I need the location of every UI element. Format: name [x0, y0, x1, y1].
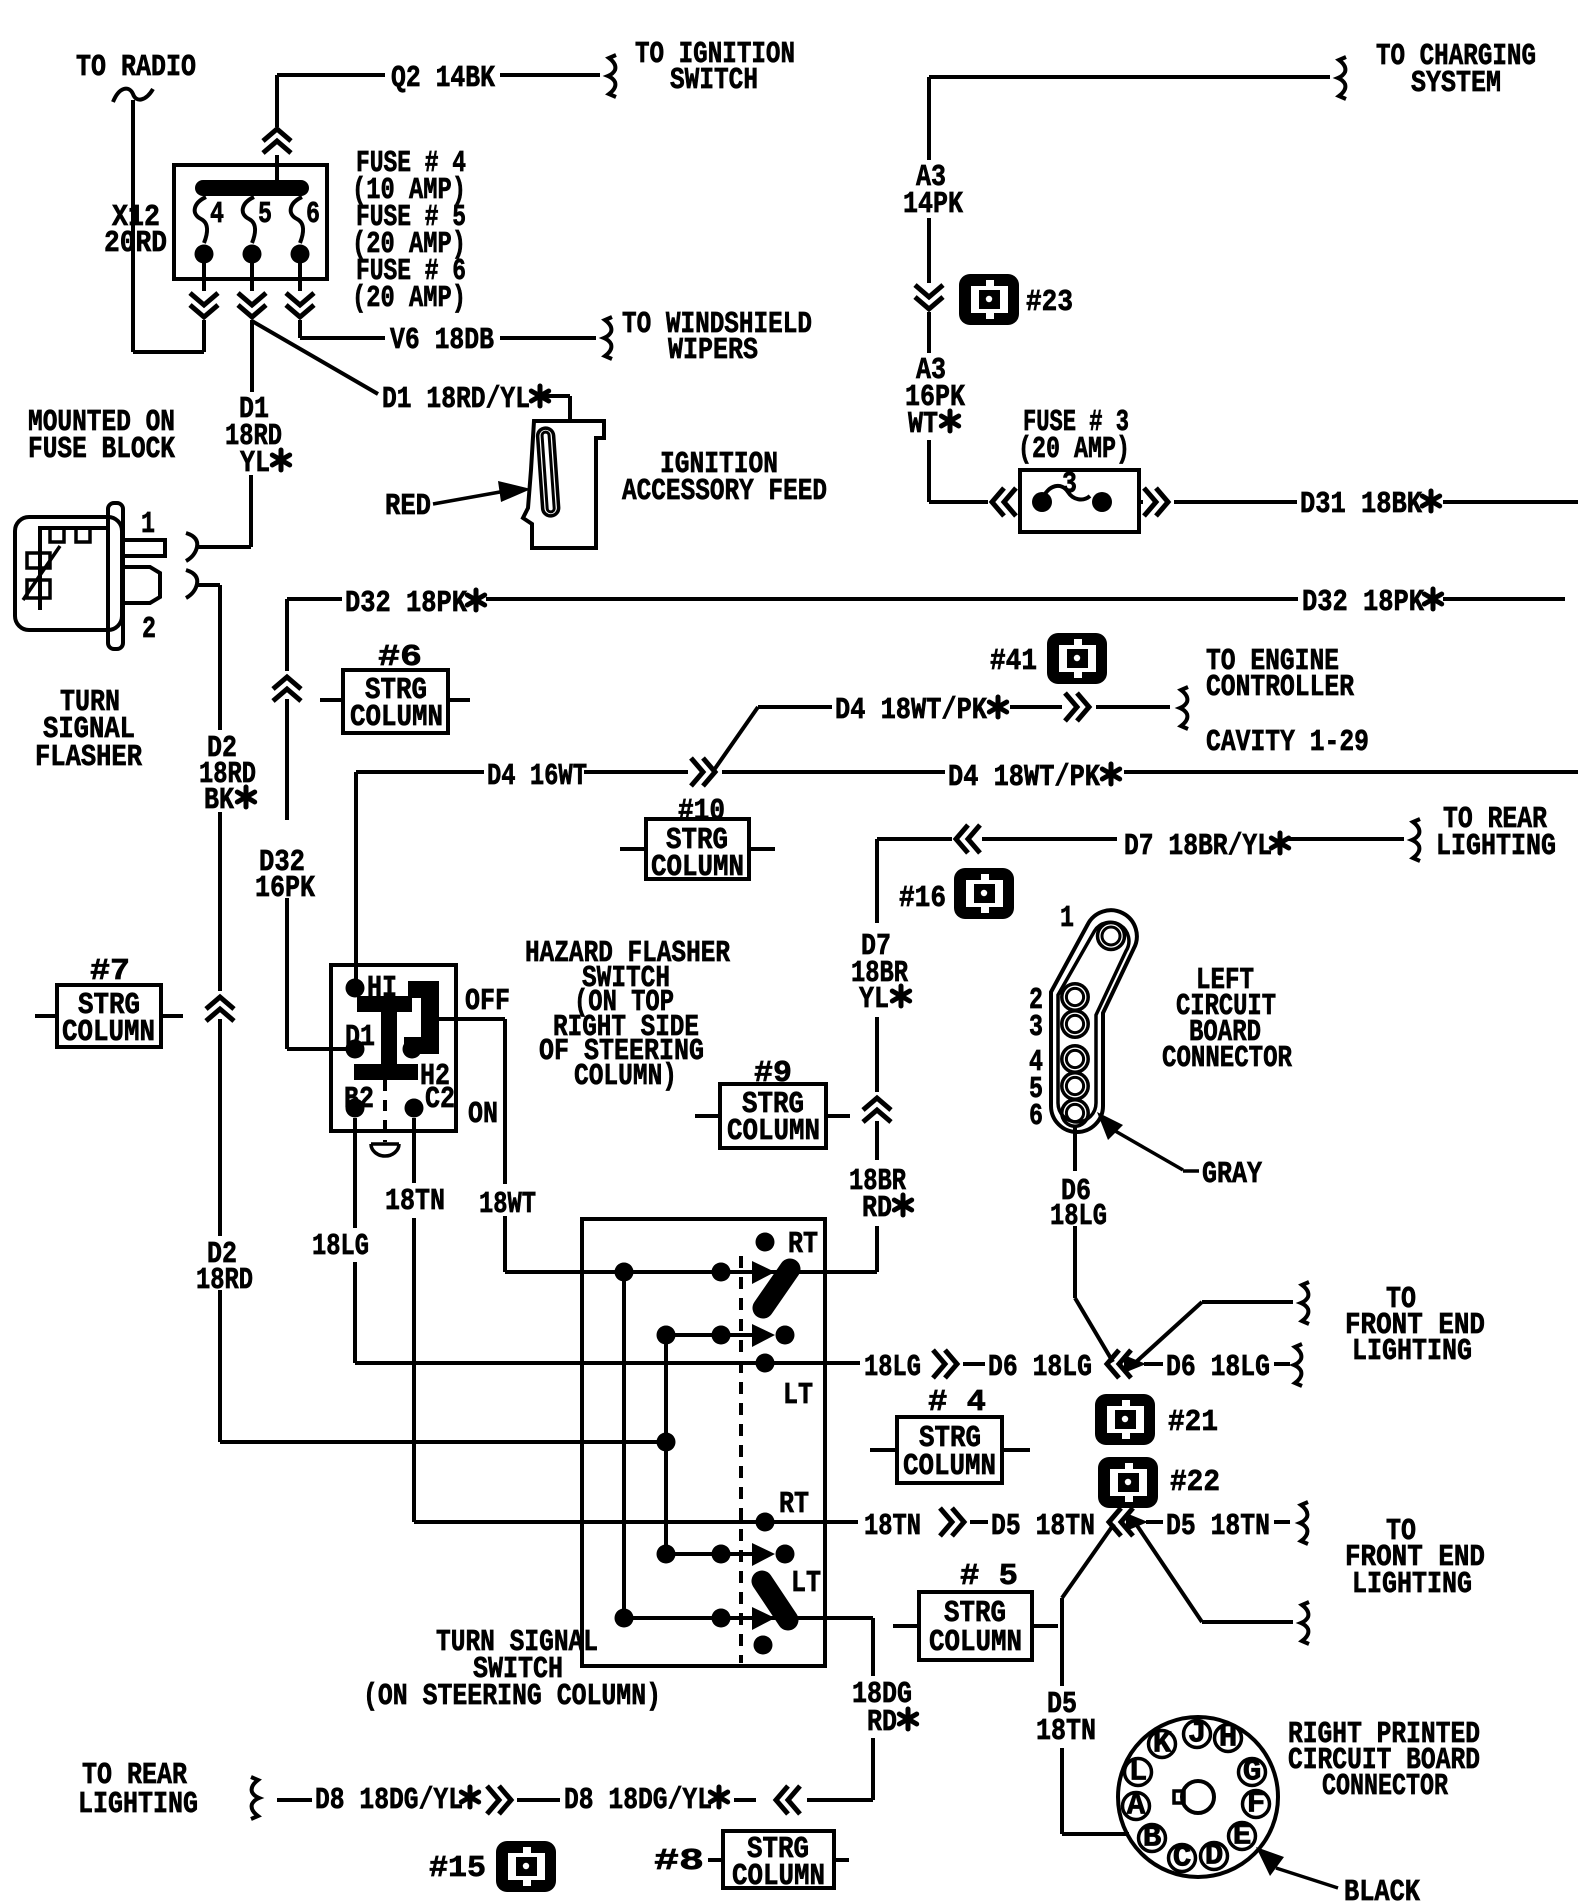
wire D4 18WT/PK* branch to engine controller	[714, 693, 1170, 770]
hazard flasher switch box	[331, 965, 456, 1131]
switch row D2 input	[220, 1433, 676, 1452]
svg-text:# 5: # 5	[960, 1559, 1018, 1594]
label HI	[367, 971, 397, 1006]
svg-text:18LG: 18LG	[864, 1350, 921, 1385]
wire A3 14PK to charging system	[915, 77, 1330, 502]
steering column grommet #4	[870, 1385, 1030, 1484]
fuse 6 element	[291, 197, 310, 264]
connector half at flasher pin 1	[186, 533, 197, 561]
wire 18DG RD* from LT lower row	[807, 1618, 873, 1800]
svg-text:D32 18PK: D32 18PK	[345, 586, 467, 621]
switch row 6 contacts	[657, 1543, 795, 1566]
ground symbol	[371, 1144, 399, 1156]
svg-text:#22: #22	[1170, 1465, 1220, 1500]
fuse block box (fuses 4-6)	[174, 165, 327, 279]
label D32 16PK	[255, 845, 315, 906]
connector bracket front lighting 4	[1301, 1602, 1309, 1644]
connector bracket to windshield wipers	[604, 317, 612, 359]
label A3 14PK	[903, 160, 963, 222]
connector cavity K	[1149, 1727, 1176, 1762]
svg-text:D6 18LG: D6 18LG	[988, 1350, 1092, 1385]
connector cavity A	[1123, 1789, 1150, 1824]
svg-text:18TN: 18TN	[385, 1184, 445, 1219]
svg-text:V6 18DB: V6 18DB	[390, 323, 494, 358]
fuse 3 pin number	[1062, 467, 1077, 502]
splice #23	[959, 274, 1019, 325]
label D4 18WT/PK* lower	[948, 760, 1120, 795]
label D2 18RD	[196, 1237, 253, 1298]
hazard switch ground dashes	[383, 1080, 387, 1142]
wire 18WT from OFF contact	[439, 1019, 582, 1272]
label D6 18LG mid	[988, 1350, 1092, 1385]
label RIGHT PRINTED CIRCUIT BOARD CONNECTOR	[1288, 1717, 1480, 1804]
label D4 18WT/PK* upper	[835, 693, 1007, 728]
svg-text:2: 2	[142, 612, 156, 647]
label #15	[429, 1851, 486, 1886]
svg-text:6: 6	[1029, 1099, 1043, 1134]
connector bracket to rear lighting bottom	[251, 1777, 259, 1819]
svg-text:TO RADIO: TO RADIO	[76, 50, 196, 85]
turn signal flasher can	[15, 503, 165, 649]
svg-text:COLUMN: COLUMN	[732, 1859, 825, 1894]
svg-text:LIGHTING: LIGHTING	[1352, 1334, 1472, 1369]
svg-text:COLUMN: COLUMN	[651, 850, 744, 885]
svg-text:#41: #41	[990, 644, 1037, 679]
label V6 18DB	[390, 323, 494, 358]
label 18LG left	[312, 1229, 369, 1264]
flasher pin 2 label	[142, 612, 156, 647]
label 18WT	[479, 1187, 536, 1222]
label 18TN left	[385, 1184, 445, 1219]
svg-text:D5 18TN: D5 18TN	[1166, 1509, 1270, 1544]
switch row RT lower	[582, 1513, 858, 1532]
label RED with arrow	[385, 481, 531, 524]
wire Q2 14BK to ignition switch	[263, 75, 600, 180]
label TURN SIGNAL SWITCH	[363, 1625, 661, 1714]
svg-text:D4 16WT: D4 16WT	[487, 759, 587, 794]
label D5 18TN stack	[1036, 1687, 1096, 1749]
svg-text:#23: #23	[1026, 285, 1073, 320]
connector cavity L	[1125, 1755, 1152, 1790]
label D6 18LG right	[1166, 1350, 1270, 1385]
label D1 18RD YL*	[225, 392, 290, 481]
connector pin 1	[1098, 923, 1125, 950]
label 18LG at box exit	[864, 1350, 921, 1385]
svg-text:D5 18TN: D5 18TN	[991, 1509, 1095, 1544]
label #41	[990, 644, 1037, 679]
svg-text:D32 18PK: D32 18PK	[1302, 585, 1424, 620]
svg-text:D6 18LG: D6 18LG	[1166, 1350, 1270, 1385]
wire D31 18BK* stub	[1443, 500, 1578, 504]
wire D8 18DG/YL row	[277, 1786, 800, 1814]
svg-text:18TN: 18TN	[1036, 1714, 1096, 1749]
hazard switch terminal HI	[346, 979, 365, 998]
connector halves at fuse 3	[929, 488, 1297, 516]
label OFF	[465, 984, 510, 1019]
fuse block bus bar	[195, 180, 309, 196]
fuse 4 pin number	[210, 197, 224, 232]
svg-text:C: C	[1173, 1841, 1192, 1876]
wire fuse 6 output V6	[286, 254, 596, 338]
svg-text:3: 3	[1029, 1010, 1043, 1045]
connector cavity J	[1184, 1717, 1211, 1752]
label BLACK with arrow	[1256, 1847, 1420, 1902]
fuse 6 pin number	[306, 197, 320, 232]
svg-text:CONNECTOR: CONNECTOR	[1322, 1769, 1448, 1804]
steering column grommet #5	[893, 1559, 1058, 1660]
switch RT upper terminal	[756, 1233, 775, 1252]
hazard switch contact bars	[354, 981, 439, 1080]
fuse 5 pin number	[258, 197, 272, 232]
connector cavity B	[1139, 1821, 1166, 1856]
svg-text:D: D	[1205, 1839, 1224, 1874]
switch bottom terminal	[754, 1636, 773, 1655]
svg-text:18LG: 18LG	[312, 1229, 369, 1264]
label #21	[1168, 1405, 1218, 1440]
svg-text:18WT: 18WT	[479, 1187, 536, 1222]
svg-text:CAVITY 1-29: CAVITY 1-29	[1206, 725, 1369, 760]
label 18BR RD* stack	[849, 1164, 912, 1226]
wire 18TN from C2	[414, 1118, 582, 1522]
label RT upper	[788, 1227, 818, 1262]
switch dashed divider	[739, 1256, 743, 1663]
svg-text:BK: BK	[204, 783, 234, 818]
fuse 5 element	[243, 197, 262, 264]
label LT upper	[783, 1378, 813, 1413]
svg-text:G: G	[1243, 1755, 1262, 1790]
label H2	[420, 1059, 450, 1094]
svg-text:18LG: 18LG	[1050, 1199, 1107, 1234]
switch row LT lower	[615, 1607, 869, 1630]
svg-text:LT: LT	[791, 1566, 821, 1601]
svg-text:(20 AMP): (20 AMP)	[352, 281, 466, 316]
svg-text:C2: C2	[425, 1082, 455, 1117]
connector half at flasher pin 2	[186, 570, 197, 598]
connector center key	[1174, 1781, 1214, 1813]
svg-text:OFF: OFF	[465, 984, 510, 1019]
svg-text:SWITCH: SWITCH	[670, 63, 758, 98]
connector bracket to rear lighting	[1412, 819, 1420, 861]
svg-text:SYSTEM: SYSTEM	[1411, 66, 1501, 101]
wire D2 18RD BK* from pin 2	[198, 585, 234, 1442]
svg-text:3: 3	[1062, 467, 1077, 502]
label TO IGNITION SWITCH	[635, 37, 795, 98]
hazard switch terminal H2	[403, 1040, 422, 1059]
label 18DG RD* stack	[852, 1677, 917, 1740]
label #23	[1026, 285, 1073, 320]
connector cavity E	[1229, 1819, 1256, 1854]
steering column grommet #10	[620, 794, 775, 885]
svg-text:B2: B2	[344, 1082, 374, 1117]
svg-text:COLUMN: COLUMN	[727, 1114, 820, 1149]
label MOUNTED ON FUSE BLOCK	[28, 405, 175, 467]
label TURN SIGNAL FLASHER	[35, 685, 142, 775]
connector cavity D	[1201, 1839, 1228, 1874]
hazard switch terminal D1	[346, 1040, 365, 1059]
wire 18BR RD* down to switch RT row	[825, 1017, 891, 1272]
label TO ENGINE CONTROLLER CAVITY 1-29	[1206, 644, 1369, 760]
label D2 18RD BK*	[199, 731, 256, 818]
switch inner vertical B	[664, 1335, 668, 1554]
label A3 16PK WT*	[905, 353, 965, 442]
label D5 18TN right	[1166, 1509, 1270, 1544]
label X12 20RD	[104, 200, 167, 261]
svg-text:#15: #15	[429, 1851, 486, 1886]
svg-text:COLUMN: COLUMN	[350, 700, 443, 735]
label TO REAR LIGHTING bottom	[78, 1758, 198, 1822]
connector cavity H	[1215, 1721, 1242, 1756]
svg-text:#16: #16	[899, 881, 946, 916]
label D31 18BK*	[1300, 487, 1440, 522]
switch lever lower	[762, 1581, 788, 1620]
connector bracket to engine controller	[1180, 687, 1188, 729]
steering column grommet #8	[654, 1831, 849, 1894]
svg-text:D4 18WT/PK: D4 18WT/PK	[948, 760, 1100, 795]
wire branch to front end lighting lower	[1136, 1524, 1293, 1622]
svg-text:J: J	[1188, 1717, 1207, 1752]
svg-text:FLASHER: FLASHER	[35, 740, 142, 775]
switch row 2 contacts	[657, 1324, 795, 1347]
label D1 18RD/YL*	[382, 382, 549, 417]
label D6 18LG stack	[1050, 1174, 1107, 1234]
svg-text:FUSE BLOCK: FUSE BLOCK	[28, 432, 175, 467]
wire D32 16PK to hazard D1 terminal	[285, 898, 289, 1046]
splice #21	[1095, 1394, 1155, 1445]
label FUSE ratings	[352, 146, 466, 316]
svg-text:5: 5	[258, 197, 272, 232]
svg-text:Q2 14BK: Q2 14BK	[391, 61, 495, 96]
svg-text:18RD: 18RD	[196, 1263, 253, 1298]
svg-text:# 4: # 4	[928, 1385, 986, 1420]
label D32 18PK* right	[1302, 585, 1442, 620]
wire D5 18TN row	[940, 1508, 1290, 1536]
wire fuse 4 output with connector	[190, 254, 218, 352]
connector pins 2-6	[1062, 984, 1088, 1126]
svg-text:6: 6	[306, 197, 320, 232]
svg-text:LIGHTING: LIGHTING	[78, 1787, 198, 1822]
switch inner vertical A	[622, 1272, 626, 1618]
svg-text:WIPERS: WIPERS	[668, 333, 758, 368]
svg-text:LIGHTING: LIGHTING	[1352, 1567, 1472, 1602]
switch lever upper	[763, 1269, 790, 1308]
label ON	[468, 1097, 498, 1132]
label TO CHARGING SYSTEM	[1376, 39, 1536, 101]
flasher pin 1 label	[141, 507, 155, 542]
label FUSE # 3 (20 AMP)	[1018, 405, 1130, 467]
wire D6 18LG row	[858, 1350, 1290, 1378]
label C2	[425, 1082, 455, 1117]
svg-text:CONTROLLER: CONTROLLER	[1206, 670, 1354, 705]
svg-text:E: E	[1233, 1819, 1252, 1854]
label D5 18TN mid	[991, 1509, 1095, 1544]
svg-text:#21: #21	[1168, 1405, 1218, 1440]
label #16	[899, 881, 946, 916]
splice #15	[496, 1841, 556, 1892]
svg-text:LIGHTING: LIGHTING	[1436, 829, 1556, 864]
label B2	[344, 1082, 374, 1117]
svg-text:GRAY: GRAY	[1202, 1157, 1262, 1192]
svg-text:18TN: 18TN	[864, 1509, 921, 1544]
connector bracket front lighting 2	[1294, 1344, 1302, 1386]
svg-text:CONNECTOR: CONNECTOR	[1162, 1041, 1292, 1076]
wire D1 18RD/YL diagonal branch	[252, 321, 570, 423]
wire D32 18PK* main row	[273, 599, 1565, 1049]
svg-text:COLUMN: COLUMN	[62, 1015, 155, 1050]
hazard switch terminal B2	[346, 1099, 365, 1118]
label D7 18BR/YL*	[1124, 829, 1289, 864]
svg-text:COLUMN: COLUMN	[929, 1625, 1022, 1660]
fuse 3 box	[1020, 470, 1139, 532]
svg-text:K: K	[1153, 1727, 1172, 1762]
splice #41	[1047, 633, 1107, 684]
label TO RADIO	[76, 50, 196, 85]
label TO FRONT END LIGHTING upper	[1345, 1282, 1485, 1369]
wire branch to front end lighting upper	[1136, 1302, 1293, 1362]
svg-text:B: B	[1143, 1821, 1162, 1856]
svg-text:D7 18BR/YL: D7 18BR/YL	[1124, 829, 1272, 864]
label TO WINDSHIELD WIPERS	[622, 307, 812, 368]
connector bracket front lighting 1	[1301, 1282, 1309, 1324]
label RT lower	[779, 1487, 809, 1522]
svg-text:#8: #8	[654, 1844, 704, 1879]
label D8 18DG/YL* right	[564, 1783, 728, 1818]
svg-text:LT: LT	[783, 1378, 813, 1413]
connector bracket to ignition switch	[608, 55, 616, 97]
svg-text:1: 1	[141, 507, 155, 542]
wire D4 16WT from hazard switch HI	[356, 758, 1578, 988]
svg-text:20RD: 20RD	[104, 226, 167, 261]
label D1	[345, 1020, 375, 1055]
svg-text:D1 18RD/YL: D1 18RD/YL	[382, 382, 530, 417]
svg-text:BLACK: BLACK	[1344, 1875, 1420, 1902]
svg-text:YL: YL	[859, 982, 889, 1017]
svg-text:RED: RED	[385, 489, 431, 524]
svg-text:D4 18WT/PK: D4 18WT/PK	[835, 693, 987, 728]
svg-text:L: L	[1129, 1755, 1148, 1790]
fuse 4 element	[195, 197, 214, 264]
wire D6 18LG from pin 6	[1075, 1127, 1113, 1362]
label GRAY with arrow	[1097, 1112, 1262, 1192]
connector bracket to charging system	[1338, 57, 1346, 99]
label D32 18PK* left	[345, 586, 485, 621]
svg-text:COLUMN): COLUMN)	[574, 1059, 677, 1094]
svg-text:4: 4	[210, 197, 224, 232]
fuse 3 element	[1032, 486, 1112, 512]
steering column grommet #6	[320, 640, 470, 735]
hazard switch terminal C2	[405, 1099, 424, 1118]
steering column grommet #9	[695, 1056, 850, 1149]
svg-text:D8 18DG/YL: D8 18DG/YL	[315, 1783, 463, 1818]
svg-text:H: H	[1219, 1721, 1238, 1756]
svg-text:HI: HI	[367, 971, 397, 1006]
svg-text:RD: RD	[862, 1191, 892, 1226]
svg-text:ACCESSORY FEED: ACCESSORY FEED	[622, 474, 827, 509]
wire D5 18TN to circular connector	[1062, 1524, 1129, 1834]
label LEFT CIRCUIT BOARD CONNECTOR	[1162, 963, 1292, 1076]
switch row LT upper	[582, 1354, 858, 1373]
svg-text:COLUMN: COLUMN	[903, 1449, 996, 1484]
label 18TN at box exit	[864, 1509, 921, 1544]
steering column grommet #7	[35, 954, 183, 1050]
svg-text:14PK: 14PK	[903, 187, 963, 222]
connector cavity G	[1239, 1755, 1266, 1790]
svg-text:D31 18BK: D31 18BK	[1300, 487, 1422, 522]
svg-text:A: A	[1127, 1789, 1146, 1824]
svg-text:RD: RD	[867, 1705, 897, 1740]
svg-text:D8 18DG/YL: D8 18DG/YL	[564, 1783, 712, 1818]
svg-text:RT: RT	[788, 1227, 818, 1262]
splice #22	[1098, 1457, 1158, 1508]
label LT lower	[791, 1566, 821, 1601]
label #22	[1170, 1465, 1220, 1500]
wire D7 18BR/YL* row	[877, 825, 1404, 923]
svg-text:YL: YL	[240, 446, 270, 481]
svg-text:RT: RT	[779, 1487, 809, 1522]
label TO FRONT END LIGHTING lower	[1345, 1514, 1485, 1602]
svg-text:F: F	[1247, 1787, 1266, 1822]
turn signal switch box	[582, 1219, 825, 1666]
svg-text:ON: ON	[468, 1097, 498, 1132]
pin 1 label	[1060, 901, 1074, 936]
svg-text:D1: D1	[345, 1020, 375, 1055]
svg-text:WT: WT	[908, 407, 938, 442]
label D8 18DG/YL* left	[315, 1783, 479, 1818]
switch row RT upper	[582, 1261, 875, 1284]
ignition accessory feed connector symbol	[523, 421, 604, 548]
wire fuse 5 output D1 feed	[197, 254, 266, 547]
connector bracket front lighting 3	[1300, 1502, 1308, 1544]
label D4 16WT	[487, 759, 587, 794]
splice #16	[954, 868, 1014, 919]
connector cavity C	[1169, 1841, 1196, 1876]
svg-text:1: 1	[1060, 901, 1074, 936]
pin labels 2-6	[1029, 983, 1043, 1134]
connector cavity F	[1243, 1787, 1270, 1822]
label TO REAR LIGHTING	[1436, 802, 1556, 864]
label HAZARD FLASHER SWITCH	[525, 936, 730, 1094]
left circuit board connector body	[1051, 910, 1137, 1132]
label D7 18BR YL* stack	[851, 929, 910, 1017]
label Q2 14BK	[391, 61, 495, 96]
wire TO RADIO lead with break symbol	[113, 89, 204, 352]
wire 18LG from B2	[355, 1118, 582, 1363]
label IGNITION ACCESSORY FEED	[622, 447, 827, 509]
right printed circuit board connector ring	[1118, 1717, 1278, 1877]
svg-text:(ON STEERING COLUMN): (ON STEERING COLUMN)	[363, 1679, 661, 1714]
wire pin1 to D1 fuse wire	[198, 545, 251, 549]
svg-text:(20 AMP): (20 AMP)	[1018, 432, 1130, 467]
